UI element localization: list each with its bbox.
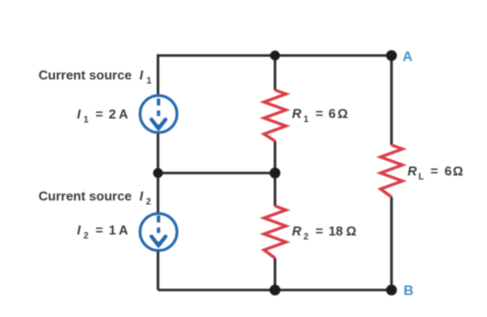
svg-text:R2=18Ω: R2=18Ω <box>292 224 356 242</box>
svg-text:Current sourceI2: Current sourceI2 <box>39 189 152 207</box>
svg-text:Current sourceI1: Current sourceI1 <box>39 68 152 86</box>
svg-text:I2=1A: I2=1A <box>77 223 129 241</box>
svg-text:A: A <box>403 48 413 64</box>
svg-text:RL=6Ω: RL=6Ω <box>408 164 464 182</box>
svg-text:B: B <box>404 282 414 298</box>
svg-text:R1=6Ω: R1=6Ω <box>292 106 348 124</box>
svg-text:I1=2A: I1=2A <box>77 107 129 125</box>
